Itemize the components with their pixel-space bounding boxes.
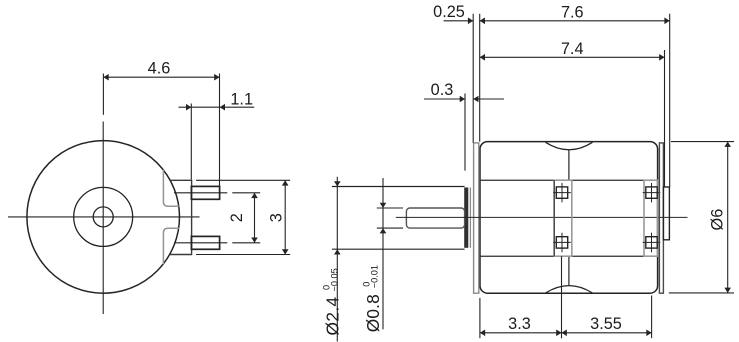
boss circle (Ø2.4): [74, 187, 133, 246]
dimension 7.4: [480, 50, 665, 187]
svg-text:1.1: 1.1: [230, 90, 253, 108]
dimension 0.3: [424, 94, 504, 171]
screw C: [643, 183, 661, 202]
svg-text:7.4: 7.4: [561, 40, 584, 58]
left strap: [554, 180, 572, 256]
shaft circle (Ø0.8): [93, 207, 113, 227]
svg-text:−0.05: −0.05: [329, 268, 339, 291]
svg-text:Ø2.4: Ø2.4: [323, 296, 343, 335]
boss outline / Ø2.4 extension top: [332, 186, 465, 188]
svg-text:2: 2: [228, 213, 246, 222]
Ø0.8 extension stubs: [377, 208, 403, 228]
terminal pin 1: [191, 186, 219, 199]
bearing boss (dark bar): [464, 188, 468, 248]
dimension Ø0.8: [380, 178, 387, 329]
motor body outer circle (Ø6): [27, 141, 180, 294]
seam line upper: [568, 150, 570, 180]
svg-text:Ø0.8: Ø0.8: [363, 294, 383, 332]
can section line lower: [480, 255, 657, 257]
dimension 0.25: [444, 14, 474, 143]
pin 1 centerline: [174, 192, 260, 194]
dimension 7.6: [480, 14, 670, 187]
svg-text:0.3: 0.3: [431, 81, 454, 99]
svg-text:Ø6: Ø6: [708, 209, 726, 231]
svg-text:3.3: 3.3: [508, 315, 531, 333]
svg-text:3.55: 3.55: [590, 315, 622, 333]
dimension 3: [196, 180, 290, 254]
right strap: [644, 180, 657, 256]
top crimp arc: [546, 142, 593, 149]
pin 2 centerline: [174, 242, 260, 244]
boss outline / Ø2.4 extension bottom: [332, 248, 465, 250]
rear plate: [659, 143, 663, 293]
svg-text:4.6: 4.6: [148, 60, 171, 78]
bearing boss right edge: [469, 188, 471, 248]
svg-text:3: 3: [267, 213, 285, 222]
terminal block outline: [170, 180, 192, 254]
terminal pin 2: [191, 236, 219, 249]
can section line upper: [480, 179, 657, 181]
dimension 3.3: [480, 256, 562, 338]
dimension 2: [251, 193, 258, 243]
screw B: [553, 233, 571, 252]
dimension Ø6: [669, 142, 734, 293]
svg-text:−0.01: −0.01: [370, 265, 380, 288]
shaft: [406, 208, 464, 228]
screw A: [553, 183, 571, 202]
horizontal centerline: [8, 216, 200, 218]
seam line lower: [568, 256, 570, 285]
left strap dark edge: [553, 180, 555, 256]
can edge pocket contour (gray): [163, 170, 179, 264]
dimension 1.1: [179, 104, 255, 180]
svg-text:7.6: 7.6: [561, 4, 584, 22]
dimension 3.55: [562, 296, 652, 339]
bottom crimp arc: [546, 286, 593, 293]
dimension Ø2.4: [334, 177, 341, 342]
svg-text:0.25: 0.25: [433, 3, 465, 21]
motor can body: [480, 142, 658, 294]
rear bump: [663, 187, 669, 240]
front mounting plate: [474, 143, 479, 293]
side view horizontal centerline: [396, 216, 688, 218]
vertical centerline: [102, 122, 104, 315]
screw D: [643, 233, 661, 252]
dimension 4.6: [103, 74, 219, 187]
